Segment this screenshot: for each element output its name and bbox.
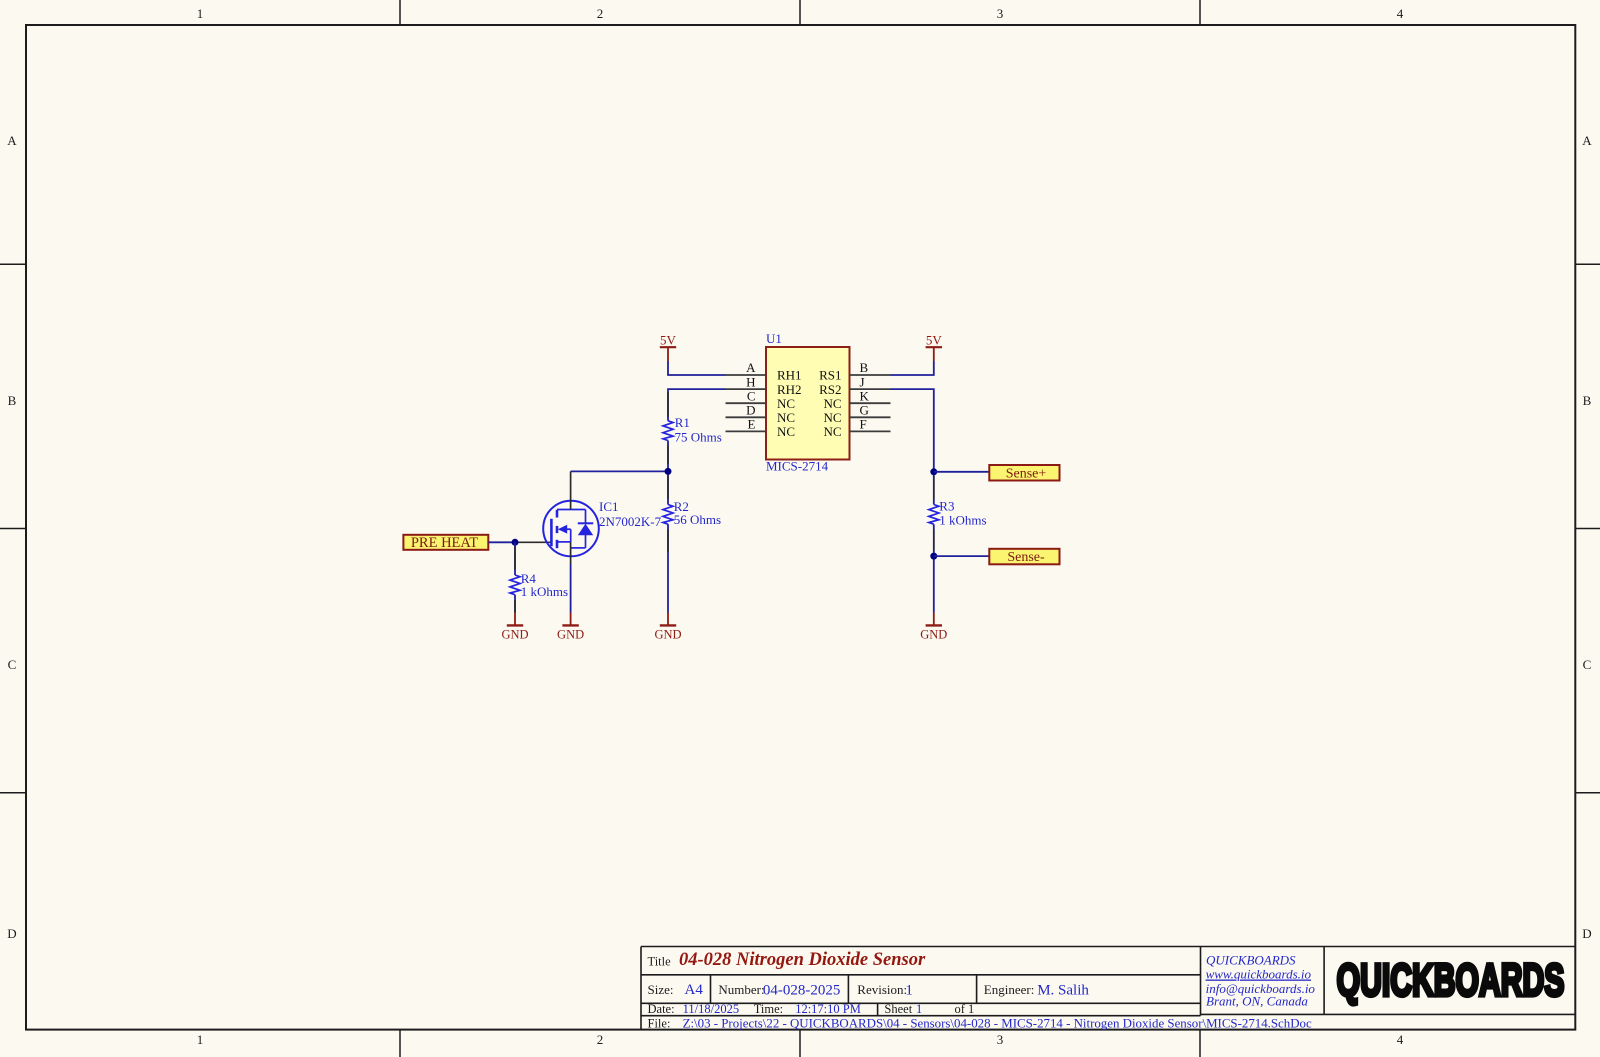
svg-text:RS2: RS2 <box>819 382 841 397</box>
svg-text:4: 4 <box>1397 6 1404 21</box>
svg-text:RH1: RH1 <box>777 368 802 383</box>
svg-text:5V: 5V <box>660 333 677 348</box>
wire R1 to R2 and drain <box>667 471 669 504</box>
pin G NC <box>823 403 890 426</box>
ground GND source <box>557 613 584 642</box>
svg-text:PRE HEAT: PRE HEAT <box>411 535 478 551</box>
svg-text:A: A <box>1582 133 1592 148</box>
svg-text:5V: 5V <box>926 333 943 348</box>
QUICKBOARDS logo <box>1337 955 1565 1006</box>
wire source <box>570 542 572 564</box>
svg-text:Number:: Number: <box>718 982 764 997</box>
svg-text:04-028 Nitrogen Dioxide Sensor: 04-028 Nitrogen Dioxide Sensor <box>679 950 926 970</box>
title text <box>648 950 926 970</box>
svg-text:NC: NC <box>823 424 841 439</box>
wire pin J to R3 chain <box>891 389 934 504</box>
pin C NC <box>726 388 796 411</box>
svg-text:H: H <box>746 374 755 389</box>
svg-text:Size:: Size: <box>648 982 674 997</box>
power 5V right <box>926 333 943 362</box>
svg-text:GND: GND <box>920 627 947 641</box>
svg-text:D: D <box>746 403 755 418</box>
wire junction to drain <box>571 470 668 472</box>
svg-text:1: 1 <box>197 1032 204 1047</box>
port PRE_HEAT <box>403 535 488 551</box>
component U1 MICS-2714 <box>766 331 850 473</box>
company info box <box>1206 953 1316 1009</box>
date/time/sheet row <box>648 1002 975 1016</box>
svg-text:NC: NC <box>777 396 795 411</box>
svg-text:Sense+: Sense+ <box>1006 466 1047 481</box>
svg-text:MICS-2714: MICS-2714 <box>766 458 829 473</box>
svg-text:4: 4 <box>1397 1032 1404 1047</box>
wire 5V right to pin B <box>891 361 934 375</box>
svg-text:Z:\03 - Projects\22 - QUICKBOA: Z:\03 - Projects\22 - QUICKBOARDS\04 - S… <box>683 1017 1312 1031</box>
junction node gate/R4 <box>512 539 519 546</box>
pin F NC <box>823 417 890 440</box>
svg-text:NC: NC <box>777 410 795 425</box>
svg-text:B: B <box>1583 393 1592 408</box>
svg-text:File:: File: <box>648 1017 671 1031</box>
size/number/revision/engineer row <box>648 982 1035 997</box>
svg-text:04-028-2025: 04-028-2025 <box>763 983 841 999</box>
svg-text:R3: R3 <box>939 499 954 514</box>
svg-text:11/18/2025: 11/18/2025 <box>683 1002 739 1016</box>
svg-text:Date:: Date: <box>648 1002 675 1016</box>
svg-text:NC: NC <box>823 396 841 411</box>
junction node Sense- <box>930 553 937 560</box>
pin B RS1 <box>819 360 890 383</box>
wire drain <box>570 471 572 509</box>
svg-text:A: A <box>746 360 756 375</box>
svg-text:K: K <box>860 388 870 403</box>
svg-text:E: E <box>748 417 756 432</box>
pin K NC <box>823 388 890 411</box>
svg-text:D: D <box>7 926 16 941</box>
svg-text:NC: NC <box>823 410 841 425</box>
TITLEBLOCK <box>641 947 1575 1031</box>
svg-text:C: C <box>8 657 17 672</box>
svg-text:75 Ohms: 75 Ohms <box>675 430 722 445</box>
junction node drain <box>665 468 672 475</box>
svg-text:56 Ohms: 56 Ohms <box>674 512 721 527</box>
svg-text:J: J <box>860 374 865 389</box>
svg-text:IC1: IC1 <box>599 499 619 514</box>
svg-text:Engineer:: Engineer: <box>984 982 1035 997</box>
CIRCUIT <box>403 331 1059 641</box>
wire R4 vertical <box>514 542 516 575</box>
svg-text:QUICKBOARDS: QUICKBOARDS <box>1206 953 1296 968</box>
junction node Sense+ <box>930 468 937 475</box>
pin J RS2 <box>819 374 890 397</box>
wire gate lead <box>515 541 551 543</box>
svg-text:1 kOhms: 1 kOhms <box>939 513 986 528</box>
svg-text:GND: GND <box>501 627 528 641</box>
svg-text:GND: GND <box>654 627 681 641</box>
svg-text:M. Salih: M. Salih <box>1037 983 1089 999</box>
wire to port Sense+ <box>934 471 990 473</box>
svg-text:2: 2 <box>597 1032 604 1047</box>
svg-text:C: C <box>1583 657 1592 672</box>
svg-text:A4: A4 <box>685 982 704 998</box>
svg-text:C: C <box>747 388 756 403</box>
svg-text:RS1: RS1 <box>819 368 841 383</box>
svg-text:G: G <box>860 403 869 418</box>
wire PRE_HEAT to gate <box>488 541 515 543</box>
file row <box>648 1017 1312 1031</box>
svg-text:of 1: of 1 <box>955 1002 975 1016</box>
svg-text:1: 1 <box>916 1002 922 1016</box>
svg-text:B: B <box>860 360 869 375</box>
svg-text:A: A <box>7 133 17 148</box>
svg-text:Title: Title <box>648 955 672 969</box>
svg-text:RH2: RH2 <box>777 382 802 397</box>
svg-text:B: B <box>8 393 17 408</box>
resistor R3 <box>929 476 987 551</box>
resistor R2 <box>663 476 721 553</box>
wire 5V left to pin A <box>668 361 726 375</box>
power 5V left <box>660 333 677 362</box>
svg-text:1 kOhms: 1 kOhms <box>521 584 568 599</box>
pin D NC <box>726 403 796 426</box>
svg-text:GND: GND <box>557 627 584 641</box>
svg-text:R1: R1 <box>675 415 690 430</box>
svg-text:Time:: Time: <box>754 1002 783 1016</box>
svg-text:Brant, ON, Canada: Brant, ON, Canada <box>1206 994 1308 1009</box>
pin H RH2 <box>726 374 802 397</box>
pin E NC <box>726 417 796 440</box>
svg-text:www.quickboards.io: www.quickboards.io <box>1206 967 1312 982</box>
transistor IC1 2N7002K-7 <box>543 499 661 556</box>
ground GND R4 <box>501 613 528 642</box>
svg-text:1: 1 <box>197 6 204 21</box>
svg-text:NC: NC <box>777 424 795 439</box>
resistor R1 <box>663 392 722 464</box>
svg-text:Sheet: Sheet <box>884 1002 912 1016</box>
svg-text:3: 3 <box>997 1032 1004 1047</box>
svg-text:Sense-: Sense- <box>1007 550 1045 565</box>
wire pin H to R1 <box>668 389 726 421</box>
svg-text:12:17:10 PM: 12:17:10 PM <box>795 1002 861 1016</box>
svg-text:D: D <box>1582 926 1591 941</box>
pin A RH1 <box>726 360 802 383</box>
resistor R4 <box>510 547 568 613</box>
port Sense+ <box>989 465 1059 481</box>
svg-text:2N7002K-7: 2N7002K-7 <box>599 514 662 529</box>
svg-text:1: 1 <box>905 983 913 999</box>
svg-text:F: F <box>860 417 867 432</box>
svg-text:Revision:: Revision: <box>857 982 907 997</box>
svg-text:3: 3 <box>997 6 1004 21</box>
svg-text:QUICKBOARDS: QUICKBOARDS <box>1337 955 1565 1006</box>
title block frame <box>641 947 1575 1030</box>
port Sense- <box>989 549 1059 565</box>
svg-text:2: 2 <box>597 6 604 21</box>
ground GND R3 <box>920 613 947 642</box>
wire to port Sense- <box>934 555 990 557</box>
ground GND R2 <box>654 613 681 642</box>
svg-text:U1: U1 <box>766 331 782 346</box>
